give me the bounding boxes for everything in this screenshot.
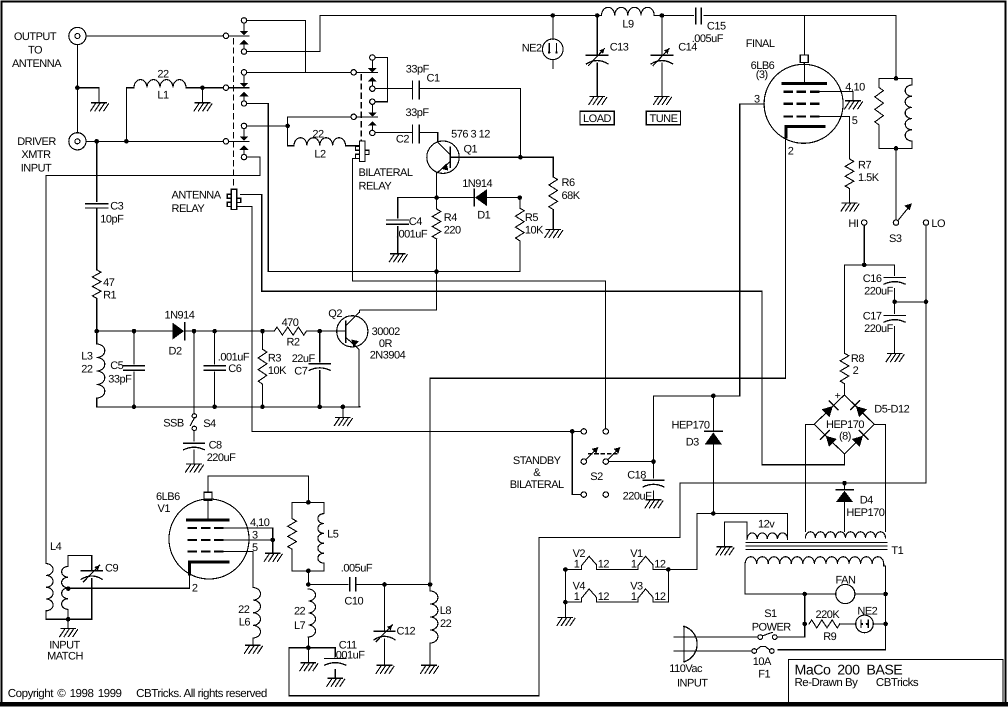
svg-text:L3: L3 [81,351,93,363]
inductor L3 [96,331,98,344]
svg-text:F1: F1 [758,669,770,681]
relay K2 coil bilateral relay [355,141,369,161]
relay contact - lower arrow [240,40,249,44]
svg-text:C5: C5 [110,360,123,372]
junction - heater row1 left [563,567,568,572]
wire - C2 to Q1 base [419,133,437,143]
pin 3 wire [740,104,765,396]
svg-text:12: 12 [598,591,610,603]
svg-text:R5: R5 [525,212,538,224]
svg-text:(8): (8) [839,431,851,443]
wire - C16 R8 bracket [845,264,895,266]
connector J1 output to antenna [69,27,86,44]
wire - heater row 1 mid [597,569,639,571]
switch S4 SSB [192,414,196,418]
svg-text:D5-D12: D5-D12 [874,404,909,416]
wire - midpoint link [895,301,926,303]
svg-text:22: 22 [294,606,306,618]
svg-text:5: 5 [252,542,258,554]
svg-text:TO: TO [28,45,43,57]
wire - emitter node to D1 [437,197,474,199]
tube grid 1 [784,90,793,92]
junction - shield ground tap [75,85,80,90]
svg-text:10K: 10K [268,365,287,377]
relay contact - upper fixed contact circle [241,123,246,128]
fuse F1 10A [752,649,757,654]
svg-text:3: 3 [252,530,258,542]
svg-text:S2: S2 [590,471,603,483]
svg-text:(3): (3) [756,69,768,81]
capacitor C8 220uF [184,442,205,444]
resistor R2 [274,327,306,335]
wire - contact stem [243,96,245,101]
svg-text:470: 470 [282,317,299,329]
wire - HI contact to C16 top [863,225,865,265]
pin 2 cathode wire [785,137,787,378]
junction - heater rows right [666,567,671,572]
inductor L9 [597,15,601,17]
wire - bridge right vertex to winding [874,424,885,531]
capacitor C3 [86,203,108,205]
wire - bracket left down to R8 [844,265,846,353]
junction - C5 top [132,329,137,334]
svg-text:CBTricks: CBTricks [876,677,919,689]
capacitor C5 [133,331,135,364]
wire - cathode bias horizontal [430,377,786,379]
wire - fan to right leg [855,593,886,595]
ground - C4 [389,254,407,262]
ground - R6 [545,230,563,238]
svg-text:3: 3 [754,94,760,106]
junction - collector C1 node [518,155,523,160]
junction - Q1 emitter node [434,195,439,200]
junction - suppressor top [894,76,899,81]
relay contact - upper arrow [240,137,249,141]
svg-text:&: & [533,467,541,479]
tube V1 grid 3 [188,550,197,552]
svg-text:R4: R4 [444,212,457,224]
svg-text:Q1: Q1 [464,144,478,156]
junction - C16 C17 midpoint [892,300,897,305]
svg-text:2N3904: 2N3904 [370,350,406,362]
svg-text:L2: L2 [314,149,326,161]
wire - 12v winding feed [697,513,788,515]
svg-text:220uF: 220uF [623,491,652,503]
svg-text:C8: C8 [209,440,222,452]
tube plate [783,82,825,85]
capacitor C15 [695,8,697,23]
diode D3 HEP170 [712,396,714,431]
capacitor C17 220uF [894,302,896,314]
svg-text:10A: 10A [753,656,772,668]
junction - D4 top [842,481,847,486]
relay contact - upper arrow [240,83,249,87]
ground - heater string [557,618,575,626]
junction - C5 bottom [132,405,137,410]
wire - L1 to relay [186,87,223,89]
relay K1 coil antenna relay [227,189,241,209]
svg-text:C6: C6 [228,363,241,375]
pin 4,10 wire driver [223,528,272,540]
capacitor C14 variable TUNE [661,16,663,55]
wire - pole3 upper contact to L2 node [247,125,288,127]
junction - LO to C16 C17 midpoint [924,300,929,305]
svg-text:C16: C16 [863,273,882,285]
switch S2 contacts [581,429,586,434]
svg-text:DRIVER: DRIVER [17,136,56,148]
inductor - parasitic suppressor L [911,78,913,85]
junction - S1 fan node [802,592,807,597]
junction - D3 top [711,394,716,399]
tube V1 plate cap [204,492,212,500]
wire - grid ground stub [272,540,274,553]
resistor R7 [845,159,854,189]
svg-text:.001uF: .001uF [333,650,365,662]
svg-text:220K: 220K [816,609,841,621]
wire - plate supply inverted U [208,476,308,502]
relay moving contact circle pole5 [351,114,356,119]
wire - heater row 1 [565,569,581,571]
tube V1 grid 2 [188,539,197,541]
capacitor C1 [412,81,414,99]
svg-text:12: 12 [654,559,666,571]
svg-text:L7: L7 [294,620,306,632]
wire - Q2 emitter to rail [358,350,360,407]
svg-text:12: 12 [598,559,610,571]
svg-text:HI: HI [848,218,858,230]
svg-text:L4: L4 [50,541,62,553]
junction - heater row2 left [563,600,568,605]
relay contact - upper fixed contact circle [241,70,246,75]
svg-text:4,10: 4,10 [250,517,270,529]
svg-text:FAN: FAN [836,575,856,587]
svg-text:D4: D4 [860,495,873,507]
wire - contact stem [243,44,245,49]
inductor L6 [253,588,261,639]
svg-text:C1: C1 [427,73,440,85]
wire - output connector to relay [86,35,223,37]
svg-text:2: 2 [853,365,859,377]
wire - C3 to R1 [96,208,98,270]
transistor Q1 [427,141,459,173]
wire - bracket right to C16 [894,265,896,275]
ground - L8 [421,665,439,673]
junction - rail ground tap [341,405,346,410]
relay contact - lower fixed contact circle [241,154,246,159]
relay contact - lower arrow [240,92,249,96]
diode D1 1N914 [473,189,475,206]
transformer T1 core [746,542,887,544]
tube V1 heater [638,556,653,569]
junction - L5 bottom [306,569,311,574]
wire - C18 riser to HV line [653,396,655,462]
relay contact - upper fixed contact circle [370,55,375,60]
tube plate cap [800,55,808,63]
inductor L8 [429,585,431,592]
wire - LO contact down [925,225,927,301]
svg-text:30002: 30002 [372,326,400,338]
switch contact LO [923,220,928,225]
diode D2 1N914 [173,323,185,340]
wire - cap to plate [207,500,209,519]
tube V1 cathode [189,561,228,564]
wire - heater row 2 [565,601,581,603]
wire - Q1 collector line [459,156,553,158]
svg-text:Q2: Q2 [328,308,342,320]
svg-text:1.5K: 1.5K [858,172,880,184]
svg-text:C14: C14 [678,42,697,54]
svg-text:C15: C15 [707,21,726,33]
wire - driver connector to relay [86,140,223,142]
junction - input match tap [66,586,71,591]
wire - primary left lead [745,564,805,594]
junction - R9 branch [802,622,807,627]
wire - cathode bias net vertical [761,291,763,465]
svg-text:.001uF: .001uF [218,352,250,364]
junction - L9 right C14 [660,13,665,18]
junction - C6 bottom [212,405,217,410]
capacitor C13 variable LOAD [596,16,598,55]
inductor L5 [323,502,325,513]
capacitor C12 variable [384,585,386,631]
svg-text:HEP170: HEP170 [846,507,884,519]
capacitor C6 [214,331,216,364]
svg-text:S1: S1 [764,608,777,620]
svg-text:R2: R2 [286,337,299,349]
ground - L7 [300,663,318,671]
wire - plug bottom prong [674,650,752,652]
relay contact - lower arrow [240,146,249,150]
relay contact - upper arrow [368,112,377,116]
tube V1 grid 1 [188,527,197,529]
svg-text:47: 47 [103,277,115,289]
svg-text:S3: S3 [889,233,902,245]
svg-text:1N914: 1N914 [165,310,195,322]
relay contact - lower arrow [368,121,377,125]
wire - L7 node to C11 and return [289,647,335,649]
resistor R8 [840,353,849,384]
wire - contact stem [371,104,373,112]
junction - grid ground node [270,538,275,543]
plug 110Vac input [683,626,685,662]
svg-text:RELAY: RELAY [172,203,206,215]
ground - C14 [654,97,672,105]
relay contact - lower fixed contact circle [370,130,375,135]
wire - Q1 emitter down [436,173,438,198]
svg-text:33pF: 33pF [406,107,430,119]
svg-text:R3: R3 [268,353,281,365]
resistor R4 [436,198,438,209]
relay contact - upper fixed contact circle [370,99,375,104]
junction - R3 bottom [260,405,265,410]
ground - C12 [376,665,394,673]
svg-text:R1: R1 [103,290,116,302]
inductor - input match secondary [67,609,69,619]
wire - connector shield vertical [76,45,78,133]
svg-text:12v: 12v [758,519,775,531]
wire - C10 to L8 node [356,584,431,586]
relay contact - upper arrow [240,31,249,35]
wire - pole5 lower contact to C2 [375,132,412,134]
wire - contact stem [371,82,373,87]
wire - HT bus [320,15,597,17]
wire - bus to parasitic suppressor [895,16,897,79]
junction - suppressor bottom [894,146,899,151]
wire - suppressor to S3 [895,148,897,219]
svg-text:TUNE: TUNE [650,113,678,125]
junction - L8 top [428,582,433,587]
svg-text:NE2: NE2 [522,43,542,55]
svg-text:FINAL: FINAL [746,38,775,50]
junction - R4 bottom [434,269,439,274]
svg-text:22: 22 [157,69,169,81]
relay contact - upper fixed contact circle [241,18,246,23]
relay contact - lower fixed contact circle [370,86,375,91]
wire - bias net left branch down [429,378,431,584]
svg-text:HEP170: HEP170 [826,419,864,431]
junction - S2 left feed [570,429,575,434]
svg-text:LO: LO [931,218,946,230]
wire - heater left ground leg [564,570,566,618]
wire - Q2 collector to R4 bottom [360,272,437,313]
ground - bias rail [334,418,352,426]
transformer T1 HV winding [805,532,885,538]
wire - L1 lead [126,87,134,89]
wire - contact stem [243,23,245,31]
junction - C6 top [212,329,217,334]
wire - S4 to C8 [193,431,195,442]
svg-text:C4: C4 [409,216,422,228]
wire - moving contact stub pole4 [356,71,377,73]
wire - moving contact stub pole2 [229,87,249,89]
wire - input match ground stub [67,619,69,628]
ground - C13 [589,97,607,105]
wire - S1 to fan node riser [777,594,804,637]
capacitor C16 220uF [884,277,905,279]
wire - right leg to fuse [778,649,886,651]
wire - S2 middle to C18 [609,461,654,463]
capacitor C9 variable [81,570,102,572]
svg-text:ANTENNA: ANTENNA [12,58,62,70]
wire - to ground [77,88,99,103]
wire - bus L9 right to C15 [654,15,693,17]
svg-text:1N914: 1N914 [462,178,492,190]
wire - LO line down to winding return [925,302,927,483]
svg-text:C10: C10 [344,596,363,608]
svg-text:22: 22 [238,604,250,616]
junction - L5 top [306,500,311,505]
svg-text:SSB: SSB [163,418,184,430]
ground - L6 [245,645,263,653]
svg-text:22uF: 22uF [292,353,316,365]
svg-text:1: 1 [574,591,580,603]
pin 2 wire driver cathode [69,574,190,588]
svg-text:HEP170: HEP170 [672,420,710,432]
lamp NE2 pilot [840,623,856,625]
svg-text:220uF: 220uF [864,286,893,298]
tube V3 heater [638,589,653,602]
svg-text:2: 2 [788,146,794,158]
wire - antenna relay coil bottom to standby switch [237,206,581,431]
tube grid 2 [784,103,793,105]
svg-text:R8: R8 [851,353,864,365]
relay K2 actuator dashed link [360,75,362,141]
svg-text:0R: 0R [379,338,393,350]
wire - pole1 lower contact to HT bus [247,16,321,52]
switch S1 POWER [758,635,763,640]
ground - C17 [886,354,904,362]
svg-text:6LB6: 6LB6 [156,491,180,503]
wire - L4 bottom lead [46,611,68,619]
relay contact - lower fixed contact circle [241,101,246,106]
svg-text:MATCH: MATCH [47,650,83,662]
wire - pin3 HV line to D3 [654,395,740,397]
wire - pole2 lower contact to bias line [247,104,269,272]
wire - heater row 1 right [653,569,697,571]
svg-text:D1: D1 [477,210,490,222]
svg-text:220uF: 220uF [207,452,236,464]
svg-text:C3: C3 [110,201,123,213]
transformer T1 primary winding [745,557,884,564]
wire - tap to driver cathode [67,587,69,589]
resistor - L5 damping R [292,501,324,503]
wire - D2 cathode rail [185,330,274,332]
junction - driver to C3 [94,139,99,144]
svg-text:D2: D2 [169,346,182,358]
tube V1 plate [188,519,229,522]
svg-text:10pF: 10pF [100,214,124,226]
svg-text:C12: C12 [397,626,416,638]
tube V-final envelope [764,64,843,143]
wire - bridge bottom return [762,454,845,465]
resistor - parasitic suppressor R [879,77,912,79]
svg-text:L5: L5 [327,529,339,541]
svg-text:T1: T1 [891,545,903,557]
svg-text:XMTR: XMTR [21,149,51,161]
connector J2 driver xmtr input [69,133,86,150]
fan motor FAN [836,584,855,603]
junction - R1 L3 node [94,329,99,334]
ground - screen grid [845,101,863,109]
wire - fan node to fan [805,593,836,595]
wire - D2 anode rail [97,330,174,332]
svg-text:L8: L8 [440,605,452,617]
ground - C11 [327,678,345,686]
capacitor C2 [412,125,414,143]
wire - R2 to Q2 base [307,330,346,332]
wire - heater row 2 mid [597,601,639,603]
ground - output shield [91,103,109,111]
capacitor C10 [349,578,351,591]
label box TUNE [646,111,680,125]
svg-text:L1: L1 [157,90,169,102]
wire - HV minus line [680,482,926,484]
ground - R7 [841,203,859,211]
svg-text:OUTPUT: OUTPUT [14,31,57,43]
tube V4 heater [582,589,597,602]
pin 3 wire driver [223,539,272,541]
svg-text:.005uF: .005uF [341,563,373,575]
svg-text:CBTricks. All rights reserved: CBTricks. All rights reserved [136,687,267,700]
svg-text:C18: C18 [627,470,646,482]
ground - C18 [645,500,663,508]
svg-text:+: + [835,390,841,402]
wire - C10 node rail [308,584,348,586]
relay contact - lower arrow [368,77,377,81]
wire - contact stem [371,126,373,131]
wire - contact stem [243,75,245,83]
capacitor C4 [397,198,399,218]
